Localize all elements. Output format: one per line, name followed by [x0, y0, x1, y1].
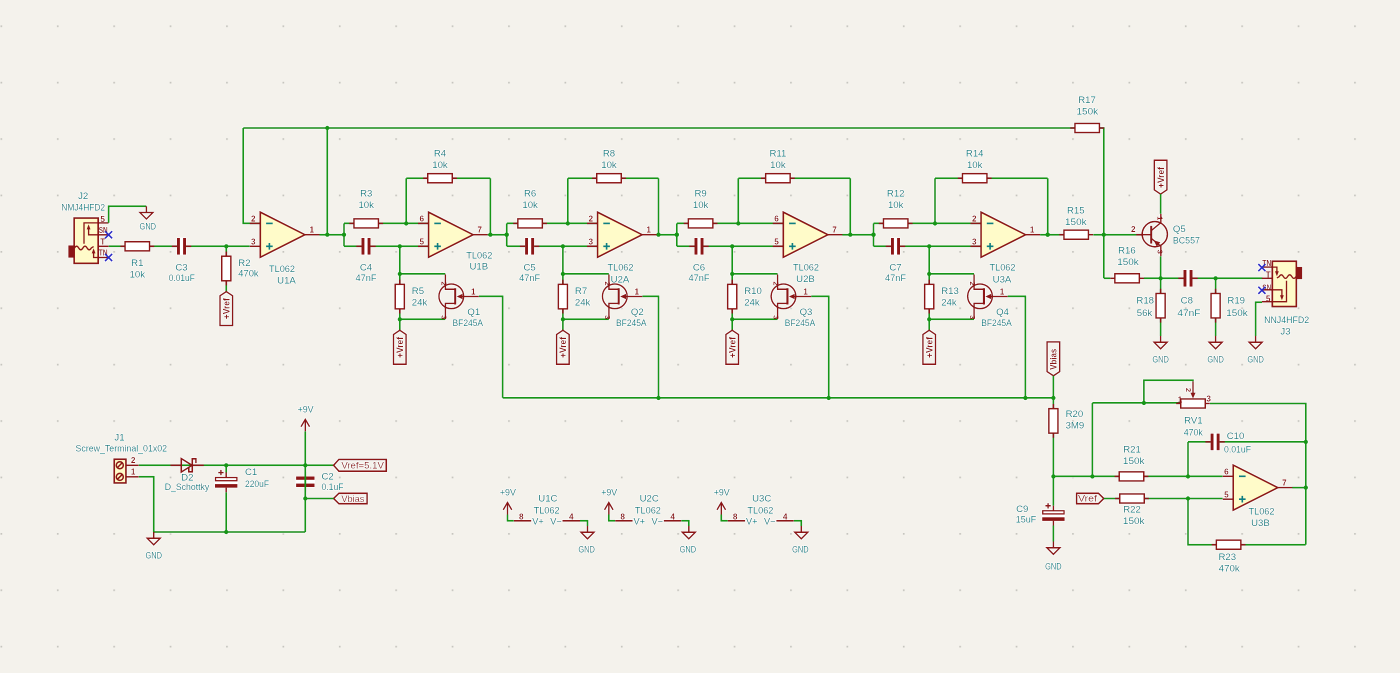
wire [567, 178, 569, 223]
svg-text:6: 6 [419, 215, 424, 224]
wire [1144, 380, 1193, 403]
Q5 labels BC557 [1173, 224, 1200, 246]
svg-text:T: T [100, 237, 105, 246]
junction [1046, 233, 1050, 237]
junction [505, 233, 509, 237]
svg-text:2: 2 [772, 281, 781, 285]
svg-text:R21: R21 [1123, 445, 1141, 456]
svg-text:TL062: TL062 [269, 264, 295, 275]
R17 labels 150k [1077, 95, 1099, 118]
wire [1188, 499, 1306, 545]
svg-text:+Vref: +Vref [395, 337, 405, 358]
wire [873, 223, 875, 246]
svg-text:470k: 470k [1184, 428, 1203, 439]
svg-text:2: 2 [968, 281, 977, 285]
svg-text:6: 6 [774, 215, 779, 224]
wire [563, 273, 609, 275]
wire [934, 178, 936, 223]
R20 labels 3M9 [1066, 409, 1085, 432]
wire [109, 206, 147, 223]
wire [1092, 402, 1180, 404]
capacitor C2 0.1uF [296, 472, 314, 492]
op-amp U1B TL062 [418, 212, 488, 257]
resistor R11 [761, 174, 795, 183]
wire [400, 273, 446, 275]
svg-text:GND: GND [1152, 355, 1169, 366]
ground [1207, 336, 1224, 366]
diode D2 D_Schottky [171, 459, 204, 472]
junction [1304, 485, 1308, 489]
R13 labels 24k [941, 286, 959, 308]
junction [730, 244, 734, 248]
resistor R2 [222, 252, 231, 286]
wire [874, 222, 982, 224]
wire [225, 465, 227, 472]
svg-text:47nF: 47nF [356, 273, 377, 284]
svg-text:R11: R11 [769, 149, 786, 160]
svg-text:4: 4 [670, 513, 675, 522]
ground [792, 526, 809, 556]
transistor Q3 BF245A JFET [771, 275, 811, 320]
svg-text:GND: GND [1247, 355, 1264, 366]
wire [344, 245, 429, 247]
connector J3 NMJ4HFD2 output jack [1262, 259, 1302, 306]
svg-text:24k: 24k [575, 298, 591, 309]
svg-text:2: 2 [1184, 388, 1193, 392]
svg-text:2: 2 [1131, 225, 1136, 234]
wire [842, 234, 873, 236]
svg-text:C9: C9 [1016, 504, 1028, 515]
wire [304, 431, 306, 465]
wire [243, 128, 1104, 278]
wire [1091, 403, 1093, 477]
svg-text:BF245A: BF245A [453, 318, 484, 329]
svg-text:10k: 10k [432, 160, 448, 171]
no-connect J2 SN [105, 231, 112, 238]
wire [732, 273, 777, 275]
junction [927, 244, 931, 248]
junction [1051, 396, 1055, 400]
junction [561, 244, 565, 248]
wire [507, 245, 598, 247]
wire [568, 177, 659, 179]
R6 labels 10k [522, 189, 538, 211]
junction [675, 233, 679, 237]
C9 labels 15uF [1016, 504, 1037, 526]
global label Vref=5.1V [334, 459, 387, 471]
svg-text:2: 2 [131, 456, 136, 465]
wire [1160, 256, 1162, 278]
svg-text:U2B: U2B [796, 274, 815, 285]
resistor R1 [120, 242, 154, 251]
svg-text:Q2: Q2 [631, 307, 644, 318]
svg-text:2: 2 [603, 281, 612, 285]
wire [343, 223, 345, 246]
svg-text:+9V: +9V [500, 487, 517, 498]
C6 labels 47nF [689, 263, 710, 284]
ground [1152, 336, 1169, 366]
U2A reference and value labels [608, 263, 634, 286]
wire [1104, 498, 1223, 500]
svg-text:1: 1 [471, 287, 476, 296]
wire [154, 531, 306, 533]
svg-text:V−: V− [652, 516, 664, 526]
svg-text:NNJ4HFD2: NNJ4HFD2 [1264, 315, 1309, 326]
resistor R20 3M9 [1049, 404, 1058, 438]
capacitor C6 [689, 238, 708, 255]
op-amp power unit U2C TL062 [605, 503, 682, 527]
svg-text:Vbias: Vbias [1049, 349, 1059, 370]
wire [1144, 277, 1263, 279]
resistor R7 24k [558, 280, 567, 314]
transistor Q2 BF245A JFET [602, 275, 642, 320]
svg-text:R15: R15 [1067, 206, 1085, 217]
svg-text:3: 3 [1156, 250, 1165, 254]
wire [1093, 234, 1142, 236]
resistor R22 [1115, 494, 1149, 503]
R15 labels 150k [1065, 206, 1087, 229]
junction [398, 272, 402, 276]
svg-text:R9: R9 [694, 189, 706, 200]
op-amp power unit U3C TL062 [717, 503, 794, 527]
junction [1158, 276, 1162, 280]
wire [406, 177, 490, 179]
wire [243, 128, 260, 223]
wire [1256, 302, 1262, 336]
wire [225, 492, 227, 532]
J3 reference and value labels [1264, 315, 1309, 338]
junction [871, 233, 875, 237]
U1B pin numbers [419, 215, 482, 247]
C2 labels 0.1uF [322, 472, 344, 494]
svg-text:24k: 24k [941, 298, 957, 309]
capacitor C3 [172, 238, 191, 255]
wire [929, 273, 974, 275]
svg-text:5: 5 [774, 237, 779, 246]
svg-text:7: 7 [1282, 479, 1287, 488]
wire [642, 296, 658, 398]
svg-text:U1C: U1C [538, 494, 557, 505]
svg-text:3: 3 [251, 237, 256, 246]
C3 labels 0.01uF [169, 262, 195, 284]
svg-text:GND: GND [1207, 355, 1224, 366]
wire [1210, 404, 1306, 545]
U3B pin numbers [1224, 468, 1287, 500]
svg-text:R14: R14 [966, 149, 984, 160]
resistor R8 [592, 174, 626, 183]
svg-text:R3: R3 [360, 189, 372, 200]
svg-text:4: 4 [569, 513, 574, 522]
wire [1188, 441, 1306, 443]
svg-text:+Vref: +Vref [222, 298, 232, 319]
junction [927, 317, 931, 321]
resistor R19 [1211, 289, 1220, 323]
C4 labels 47nF [356, 263, 377, 284]
svg-text:R5: R5 [412, 286, 424, 297]
svg-text:U3C: U3C [752, 494, 771, 505]
U1B reference and value labels [466, 251, 492, 273]
junction [675, 233, 679, 237]
svg-text:150k: 150k [1226, 308, 1248, 319]
resistor R16 [1110, 274, 1144, 283]
wire [507, 222, 598, 224]
wire [304, 465, 306, 532]
wire [738, 177, 850, 179]
svg-text:R7: R7 [575, 286, 587, 297]
svg-text:7: 7 [832, 226, 837, 235]
R1 labels 10k [130, 258, 146, 280]
resistor R14 [958, 174, 992, 183]
svg-text:GND: GND [1045, 562, 1062, 573]
R21 labels 150k [1123, 445, 1145, 467]
svg-text:6: 6 [1224, 468, 1229, 477]
svg-text:V−: V− [764, 516, 776, 526]
svg-text:1: 1 [635, 287, 640, 296]
svg-text:15uF: 15uF [1016, 514, 1037, 525]
wire [405, 178, 407, 223]
ground [578, 526, 595, 556]
U3C power wires [721, 515, 801, 527]
power flag +Vref [1154, 160, 1167, 194]
svg-text:GND: GND [578, 545, 595, 556]
wire [225, 246, 227, 291]
R4 labels 10k [432, 149, 448, 172]
junction [398, 244, 402, 248]
svg-text:R8: R8 [603, 149, 615, 160]
svg-text:GND: GND [145, 551, 162, 562]
svg-text:U1B: U1B [469, 262, 488, 273]
svg-text:R4: R4 [434, 149, 447, 160]
op-amp power unit U1C TL062 [503, 503, 580, 527]
wire [344, 222, 429, 224]
R2 labels 470k [238, 258, 258, 279]
svg-text:10k: 10k [522, 200, 538, 211]
svg-text:T: T [1266, 270, 1271, 279]
svg-text:TL062: TL062 [635, 506, 661, 517]
svg-text:10k: 10k [130, 270, 146, 281]
svg-text:C8: C8 [1181, 295, 1193, 306]
svg-text:+Vref: +Vref [728, 337, 738, 358]
svg-text:150k: 150k [1117, 257, 1139, 268]
svg-text:C2: C2 [322, 472, 334, 483]
wire [563, 318, 609, 320]
wire [488, 234, 507, 236]
wire [1040, 234, 1065, 236]
junction [827, 396, 831, 400]
svg-text:V+: V+ [634, 516, 646, 526]
svg-text:8: 8 [733, 513, 738, 522]
svg-text:1: 1 [310, 226, 315, 235]
svg-text:4: 4 [783, 513, 788, 522]
svg-text:3: 3 [439, 315, 448, 319]
wire [1292, 487, 1306, 489]
svg-text:R6: R6 [524, 189, 536, 200]
C10 labels 0.01uF [1224, 431, 1251, 456]
R23 labels 470k [1218, 552, 1239, 575]
svg-text:BF245A: BF245A [616, 318, 647, 329]
wire [1052, 476, 1054, 505]
wire [732, 318, 777, 320]
wire [320, 234, 345, 236]
svg-text:3M9: 3M9 [1066, 420, 1085, 431]
resistor R23 [1212, 540, 1246, 549]
svg-text:Vref=5.1V: Vref=5.1V [341, 461, 384, 471]
junction [303, 496, 307, 500]
op-amp U2A TL062 [587, 212, 657, 257]
wire [849, 178, 851, 235]
svg-text:Vref: Vref [1078, 494, 1098, 504]
junction [398, 317, 402, 321]
wire [399, 246, 401, 330]
svg-text:U1A: U1A [277, 276, 296, 287]
R18 labels 56k [1136, 296, 1154, 319]
resistor R12 [879, 219, 913, 228]
svg-text:10k: 10k [601, 160, 617, 171]
R9 labels 10k [693, 189, 709, 211]
svg-text:2: 2 [251, 215, 256, 224]
power flag +Vref [557, 330, 570, 364]
junction [404, 221, 408, 225]
svg-text:GND: GND [140, 222, 157, 233]
svg-text:GND: GND [680, 545, 697, 556]
R14 labels 10k [966, 149, 984, 172]
wire [1187, 442, 1189, 477]
ground [680, 526, 697, 556]
svg-text:V+: V+ [532, 516, 544, 526]
junction [1213, 276, 1217, 280]
junction [303, 463, 307, 467]
wire [503, 397, 1054, 399]
capacitor C1 220uF [215, 470, 237, 493]
U2B pin numbers [774, 215, 837, 247]
svg-text:Q4: Q4 [996, 307, 1009, 318]
svg-text:+Vref: +Vref [1156, 167, 1166, 188]
junction [224, 463, 228, 467]
resistor R5 24k [395, 280, 404, 314]
op-amp U3A TL062 [971, 212, 1041, 257]
svg-text:5: 5 [1224, 490, 1229, 499]
wire [139, 477, 154, 532]
capacitor C5 [520, 238, 539, 255]
junction [566, 221, 570, 225]
svg-text:470k: 470k [1219, 564, 1240, 575]
svg-text:Q1: Q1 [467, 307, 480, 318]
svg-text:47nF: 47nF [1177, 308, 1200, 319]
U3C labels +9V TL062 [714, 487, 774, 516]
svg-text:V+: V+ [746, 516, 758, 526]
capacitor C7 [886, 238, 905, 255]
svg-text:3: 3 [588, 237, 593, 246]
wire [479, 296, 503, 398]
op-amp U3B TL062 [1223, 465, 1293, 510]
wire [506, 223, 508, 246]
svg-text:R12: R12 [887, 189, 905, 200]
R11 labels 10k [769, 149, 786, 172]
svg-text:J1: J1 [114, 432, 124, 443]
junction [1102, 233, 1106, 237]
global label Vref [1077, 493, 1104, 503]
svg-text:10k: 10k [358, 200, 374, 211]
svg-text:+9V: +9V [714, 487, 731, 498]
J2 reference and value labels [61, 191, 105, 214]
svg-text:7: 7 [477, 226, 482, 235]
resistor R4 [423, 174, 457, 183]
svg-text:R16: R16 [1118, 245, 1136, 256]
svg-text:150k: 150k [1065, 217, 1087, 228]
U3A pin numbers [972, 215, 1035, 247]
svg-text:56k: 56k [1137, 308, 1153, 319]
svg-text:Q5: Q5 [1173, 224, 1186, 235]
svg-text:U3A: U3A [993, 275, 1012, 286]
junction [1023, 396, 1027, 400]
svg-text:J2: J2 [78, 191, 88, 202]
wire [109, 245, 250, 247]
R12 labels 10k [887, 189, 905, 211]
svg-text:3: 3 [968, 315, 977, 319]
svg-text:150k: 150k [1123, 516, 1145, 527]
svg-text:TL062: TL062 [793, 263, 819, 274]
svg-text:R10: R10 [744, 286, 762, 297]
wire [562, 246, 564, 330]
wire [1160, 194, 1162, 214]
svg-text:TL062: TL062 [1249, 506, 1275, 517]
junction [871, 233, 875, 237]
svg-text:3: 3 [972, 237, 977, 246]
svg-text:1: 1 [1178, 395, 1183, 404]
U1C labels +9V TL062 [500, 487, 560, 516]
C5 labels 47nF [519, 263, 540, 284]
svg-text:U2C: U2C [640, 494, 659, 505]
svg-text:R22: R22 [1123, 505, 1141, 516]
wire [1008, 296, 1026, 398]
transistor Q1 BF245A JFET [439, 275, 479, 320]
connector J1 screw terminal [114, 456, 139, 483]
junction [656, 396, 660, 400]
Q2 labels BF245A [616, 307, 647, 329]
junction [224, 530, 228, 534]
svg-text:R19: R19 [1227, 296, 1245, 307]
svg-text:24k: 24k [744, 298, 760, 309]
svg-text:BC557: BC557 [1173, 236, 1200, 247]
svg-text:1: 1 [131, 467, 136, 476]
wire [935, 177, 1048, 179]
potentiometer RV1 470k [1176, 381, 1211, 408]
svg-text:BF245A: BF245A [785, 318, 816, 329]
U1A reference and value labels [269, 264, 296, 286]
wire [1160, 278, 1162, 336]
U2C labels +9V TL062 [601, 487, 661, 516]
no-connect J3 SN [1258, 287, 1265, 294]
svg-text:TL062: TL062 [747, 506, 773, 517]
svg-text:R17: R17 [1078, 95, 1096, 106]
power flag Vbias [1047, 342, 1060, 376]
transistor Q4 BF245A JFET [968, 275, 1008, 320]
wire [305, 498, 333, 500]
junction [933, 221, 937, 225]
svg-text:TL062: TL062 [466, 251, 492, 262]
svg-text:8: 8 [519, 513, 524, 522]
resistor R9 [684, 219, 718, 228]
power symbol +9V [298, 405, 315, 432]
wire [811, 296, 829, 398]
svg-text:24k: 24k [412, 298, 428, 309]
junction [224, 244, 228, 248]
wire [400, 318, 446, 320]
Q4 labels BF245A [981, 307, 1012, 329]
svg-text:47nF: 47nF [519, 273, 540, 284]
svg-text:NMJ4HFD2: NMJ4HFD2 [61, 203, 105, 214]
R16 labels 150k [1117, 245, 1139, 268]
